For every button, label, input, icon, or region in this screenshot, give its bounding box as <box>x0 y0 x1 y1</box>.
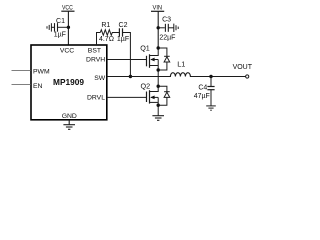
power rail VCC <box>61 10 74 12</box>
wire DRVH to Q1 gate <box>107 59 147 61</box>
ground (C3 side ground) <box>174 24 178 32</box>
node VIN/C3 junction <box>157 26 160 29</box>
svg-text:VCC: VCC <box>60 47 74 54</box>
node C2/SW junction <box>129 75 132 78</box>
svg-text:Q2: Q2 <box>141 82 151 91</box>
node Q2 source junction <box>157 104 160 107</box>
svg-text:L1: L1 <box>177 59 185 68</box>
svg-text:C3: C3 <box>162 16 171 23</box>
svg-text:DRVH: DRVH <box>86 57 105 64</box>
inductor L1 <box>158 73 245 77</box>
capacitor C4 <box>207 77 214 106</box>
terminal VOUT <box>246 75 249 78</box>
svg-text:4.7Ω: 4.7Ω <box>99 36 114 43</box>
wire VCC rail to VCC pin <box>67 11 69 45</box>
ground (C1 side ground) <box>47 23 51 31</box>
svg-text:DRVL: DRVL <box>87 94 105 101</box>
svg-text:C1: C1 <box>56 18 65 25</box>
ground (Q2 source) <box>152 116 164 121</box>
svg-text:C2: C2 <box>119 22 128 29</box>
node Q2 drain junction <box>157 85 160 88</box>
diode D2 (Q2 body diode) <box>158 86 170 105</box>
node Q1 drain junction <box>157 46 160 49</box>
node VCC/C1 junction <box>67 26 70 29</box>
capacitor C1 <box>51 23 68 32</box>
svg-text:VOUT: VOUT <box>233 64 253 71</box>
svg-text:C4: C4 <box>198 85 207 92</box>
capacitor C2 <box>119 28 122 36</box>
wire C2 to SW node <box>122 33 130 77</box>
wire PWM input stub <box>12 70 32 72</box>
power rail VIN <box>151 10 164 12</box>
wire VIN to Q1 drain <box>157 11 159 48</box>
svg-text:R1: R1 <box>101 22 110 29</box>
diode D1 (Q1 body diode) <box>158 48 170 70</box>
chip U1 MP1909 <box>31 45 107 120</box>
ground (C4) <box>206 106 216 110</box>
resistor R1 <box>100 30 119 36</box>
node Q1 source junction <box>157 68 160 71</box>
wire DRVL to Q2 gate <box>107 96 147 98</box>
svg-text:GND: GND <box>62 113 77 120</box>
svg-text:Q1: Q1 <box>140 44 150 53</box>
svg-text:1µF: 1µF <box>117 36 129 43</box>
svg-text:PWM: PWM <box>33 69 50 76</box>
svg-text:EN: EN <box>33 83 43 90</box>
svg-text:22µF: 22µF <box>159 35 175 42</box>
svg-text:MP1909: MP1909 <box>53 77 84 87</box>
wire SW pin to switch node <box>107 76 158 78</box>
svg-text:VIN: VIN <box>153 4 163 11</box>
wire BST pin up <box>97 33 101 46</box>
svg-text:SW: SW <box>94 75 106 82</box>
wire GND pin to ground <box>68 120 70 125</box>
svg-text:BST: BST <box>88 47 101 54</box>
wire EN input stub <box>12 84 32 86</box>
node SW/C4/VOUT junction <box>209 75 212 78</box>
svg-text:1µF: 1µF <box>54 32 66 39</box>
capacitor C3 <box>158 24 174 32</box>
svg-text:VCC: VCC <box>62 4 73 11</box>
svg-text:47µF: 47µF <box>194 93 210 100</box>
ground (IC GND) <box>63 125 75 130</box>
